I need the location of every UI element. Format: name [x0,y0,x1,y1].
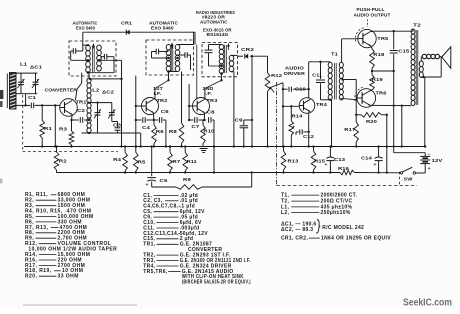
svg-text:C12: C12 [303,134,315,139]
svg-text:TR4: TR4 [316,102,327,107]
svg-text:C8: C8 [207,110,216,115]
svg-text:EXO 5460: EXO 5460 [151,26,174,31]
svg-text:R17: R17 [344,127,356,132]
svg-text:R4: R4 [113,157,122,162]
svg-text:+: + [292,125,295,130]
svg-text:CONVERTER: CONVERTER [45,88,78,93]
svg-text:T1: T1 [331,52,338,58]
svg-text:R19: R19 [372,77,384,82]
svg-text:C10: C10 [295,86,307,91]
svg-text:R13: R13 [288,159,300,164]
svg-text:−: − [427,151,430,156]
svg-text:TR2: TR2 [157,98,168,103]
svg-text:AUDIO: AUDIO [285,66,304,71]
svg-text:+: + [428,166,431,171]
svg-text:C9: C9 [235,118,244,123]
svg-text:R14: R14 [292,114,304,119]
svg-text:TR5,TR6,: TR5,TR6, [143,269,168,275]
svg-text:SW: SW [404,177,414,182]
svg-text:ΔC1: ΔC1 [30,65,42,70]
svg-text:12V: 12V [432,158,444,163]
svg-text:ΔC2, — 89.3: ΔC2, — 89.3 [281,227,313,233]
svg-text:C2: C2 [77,108,86,113]
svg-text:TR1,: TR1, [143,242,155,248]
svg-text:R16: R16 [338,166,350,171]
svg-text:TR1: TR1 [76,99,87,104]
svg-text:TR6: TR6 [376,90,387,95]
svg-text:R10: R10 [203,129,215,134]
svg-text:C6: C6 [161,109,170,114]
svg-text:EXO 5460: EXO 5460 [76,26,95,31]
svg-text:R20: R20 [366,119,378,124]
svg-text:250μh±10%: 250μh±10% [321,210,351,216]
svg-text:ΔC2: ΔC2 [102,89,114,94]
svg-text:R7: R7 [172,159,181,164]
svg-text:R15: R15 [314,158,326,163]
svg-text:L2,: L2, [281,210,289,216]
svg-text:R1: R1 [44,126,53,131]
svg-text:R2: R2 [59,159,68,164]
svg-text:R3: R3 [59,127,68,132]
svg-text:I.F.: I.F. [204,91,212,96]
svg-text:CR1: CR1 [121,21,132,26]
svg-text:C15: C15 [398,48,410,53]
svg-text:C1: C1 [28,95,37,100]
svg-text:AUTOMATIC: AUTOMATIC [200,19,228,24]
svg-text:R9: R9 [183,177,192,182]
svg-text:R/C MODEL 242: R/C MODEL 242 [322,225,364,231]
svg-text:R12: R12 [271,73,283,78]
svg-text:TR3: TR3 [207,98,218,103]
svg-text:(BIRCHER 5AL635-2R OR EQUIV.): (BIRCHER 5AL635-2R OR EQUIV.) [182,280,251,286]
svg-text:R11: R11 [187,159,197,164]
svg-text:AUDIO OUTPUT: AUDIO OUTPUT [354,12,391,17]
svg-text:R6: R6 [156,129,165,134]
svg-text:L1: L1 [20,62,27,67]
svg-text:C13: C13 [334,157,346,162]
svg-text:C11: C11 [312,73,322,78]
svg-text:33 OHM: 33 OHM [58,274,79,280]
svg-text:C5: C5 [160,178,169,183]
svg-text:C4: C4 [142,125,151,130]
svg-text:C7: C7 [191,124,200,129]
svg-text:DRIVER: DRIVER [284,71,306,76]
svg-text:CR2: CR2 [241,47,254,52]
svg-text:C14: C14 [361,156,373,161]
svg-text:CR1, CR2,: CR1, CR2, [281,236,308,242]
svg-text:R18: R18 [373,52,385,57]
svg-text:TR5: TR5 [377,36,388,41]
svg-text:1N64 OR 1N295 OR EQUIV: 1N64 OR 1N295 OR EQUIV [321,236,391,242]
svg-text:R8: R8 [169,129,178,134]
svg-text:BS1614G: BS1614G [207,32,229,37]
svg-text:+: + [374,162,377,167]
svg-text:L2: L2 [92,88,99,93]
svg-text:I.F.: I.F. [154,91,162,96]
svg-text:SeekIC.com: SeekIC.com [403,298,452,309]
svg-text:T2: T2 [413,23,421,29]
svg-text:R20,: R20, [25,274,38,280]
svg-text:C3: C3 [113,123,122,128]
svg-text:R5: R5 [138,159,147,164]
